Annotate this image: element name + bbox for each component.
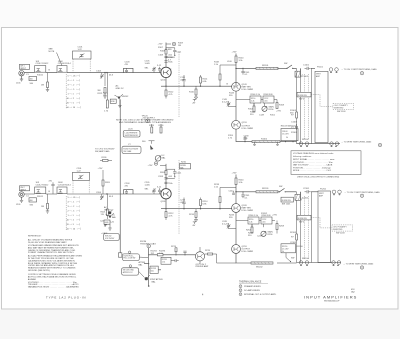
- svg-text:AND TERMINATED GUARD-RING TYPE: AND TERMINATED GUARD-RING TYPE ASSEMBLIE…: [119, 121, 171, 124]
- node CH2 plus output: [235, 191, 236, 192]
- svg-text:GND DC: GND DC: [116, 88, 125, 90]
- svg-text:GND: GND: [111, 101, 116, 103]
- label box SW1290 rounded: [122, 265, 145, 278]
- svg-text:R205: R205: [105, 182, 111, 184]
- coupling switch SW202 AC-GND-DC: [104, 206, 114, 230]
- svg-text:C2012 R2012: C2012 R2012: [36, 185, 50, 187]
- wire switch link vertical: [119, 100, 121, 190]
- svg-text:MODE . . . . . . . . . . . . .: MODE . . . . . . . . . . . . . . . . . .…: [293, 170, 332, 172]
- svg-text:10 ─○ 2 ○─┤: 10 ─○ 2 ○─┤: [67, 218, 81, 221]
- svg-text:C149: C149: [259, 115, 265, 117]
- potentiometer R156 GAIN: [262, 106, 274, 112]
- wire CH2 cluster links: [236, 221, 275, 228]
- label to vert switching bottom: [341, 141, 382, 147]
- svg-text:INVERTED: INVERTED: [334, 108, 344, 110]
- capacitor C2101: [303, 188, 311, 194]
- transistor Q201 FET input: [161, 189, 172, 203]
- resistor R136: [100, 157, 112, 161]
- switch S101 VOLTS/DIV contact table: [67, 74, 81, 109]
- wire CH1 minus output row: [236, 129, 297, 141]
- resistor R140: [235, 56, 244, 86]
- wire dashed to CH2 invert label: [311, 218, 332, 228]
- resistor R276: [205, 250, 217, 255]
- node chain junctions: [148, 254, 150, 287]
- svg-text:AGRAM:: AGRAM:: [28, 278, 37, 281]
- inductor L120 decoupling label box: [123, 129, 140, 138]
- svg-text:FULL CCW SW: FULL CCW SW: [124, 258, 136, 260]
- svg-text:SW 1201: SW 1201: [282, 204, 291, 206]
- svg-text:W1101: W1101: [262, 65, 269, 67]
- svg-text:VARIABLE/VOLTS/DIV . . . . . .: VARIABLE/VOLTS/DIV . . . . . . . . . . .…: [28, 286, 79, 289]
- trimmer capacitor C201 box: [73, 168, 90, 180]
- svg-text:TYPE 1A2 PLUG-IN: TYPE 1A2 PLUG-IN: [46, 296, 86, 300]
- power +75V CH2 FET: [148, 165, 167, 167]
- note text: [116, 119, 174, 125]
- resistor R214: [200, 198, 209, 210]
- resistor R116: [189, 86, 197, 95]
- svg-text:4.5-25: 4.5-25: [222, 101, 229, 103]
- potentiometer R134 DC BAL: [142, 141, 166, 161]
- svg-text:R258: R258: [279, 226, 285, 228]
- resistor R205: [102, 180, 111, 186]
- svg-text:R246 1.5k: R246 1.5k: [249, 215, 259, 217]
- capacitor bridge C103 over bus: [124, 62, 134, 73]
- svg-text:INPUT: INPUT: [20, 189, 27, 191]
- svg-text:W1201: W1201: [262, 188, 269, 190]
- transistor Q153 output follower: [232, 120, 254, 129]
- connector P1201 pins top CH2: [320, 189, 341, 196]
- box R1103 output dc level CH1: [281, 125, 298, 142]
- switch SW1101: [284, 63, 293, 69]
- svg-text:5k: 5k: [286, 137, 288, 139]
- svg-text:1M: 1M: [41, 85, 44, 87]
- capacitor box C252: [261, 217, 272, 224]
- coupling block input: [29, 76, 37, 80]
- svg-text:R108: R108: [160, 51, 166, 53]
- svg-text:VAR VOLTS/DIV . . . . . . . .: VAR VOLTS/DIV . . . . . . . . . . . . . …: [293, 164, 333, 167]
- svg-text:R154: R154: [248, 109, 254, 111]
- svg-text:R124: R124: [149, 125, 155, 127]
- svg-text:R256: R256: [268, 234, 274, 236]
- wire CH1 input bus: [24, 72, 161, 74]
- svg-text:C2102: C2102: [302, 198, 309, 200]
- svg-text:1: 1: [240, 286, 241, 288]
- resistor R121: [98, 72, 107, 98]
- svg-text:INPUT: INPUT: [20, 68, 27, 70]
- svg-text:C1102: C1102: [302, 76, 309, 78]
- svg-text:R146 1.5k: R146 1.5k: [251, 94, 261, 96]
- diode CR216: [192, 218, 198, 228]
- svg-text:+75V: +75V: [98, 168, 104, 170]
- connector J1 CH1 INPUT label: [20, 64, 30, 70]
- label box CH1 polarity dashed: [333, 103, 354, 113]
- capacitor bridge C203 over bus: [124, 183, 134, 194]
- svg-text:2.4k: 2.4k: [249, 222, 252, 224]
- wire Q201 drain up: [165, 164, 167, 189]
- variable capacitor C245: [222, 221, 236, 229]
- shield box connector hatched CH2: [295, 192, 302, 201]
- svg-text:R274: R274: [171, 246, 177, 248]
- svg-text:C1014 R1014: C1014 R1014: [58, 63, 72, 65]
- coupling block input 2: [29, 198, 37, 202]
- label group second stage CH2: [229, 215, 271, 238]
- svg-text:4.5-25: 4.5-25: [222, 223, 229, 225]
- svg-text:FOLLOWER: FOLLOWER: [242, 128, 254, 130]
- svg-text:Q201: Q201: [161, 201, 167, 203]
- label group CH1 column: [290, 76, 309, 141]
- trimmer capacitor C205: [145, 182, 156, 194]
- svg-text:4 ─○ .1 ○─┤: 4 ─○ .1 ○─┤: [68, 200, 81, 203]
- label atten bal: [139, 261, 146, 266]
- title block designators: [351, 289, 356, 294]
- svg-text:Q101: Q101: [161, 80, 167, 82]
- svg-text:+75V: +75V: [272, 215, 278, 217]
- svg-text:R158: R158: [279, 105, 285, 107]
- svg-text:C211: C211: [177, 173, 183, 175]
- capacitor C141: [241, 68, 250, 76]
- wire dashed links attenuator to C201: [73, 180, 89, 194]
- svg-text:2.4k: 2.4k: [251, 101, 254, 103]
- svg-text:R1011: R1011: [37, 75, 44, 77]
- svg-text:→ TO CH 2 VERT SWITCHING, DIAG: → TO CH 2 VERT SWITCHING, DIAG: [344, 191, 380, 194]
- svg-text:R210: R210: [181, 161, 187, 163]
- svg-text:R151: R151: [270, 115, 276, 117]
- svg-text:C2103: C2103: [290, 242, 297, 244]
- capacitor C213: [180, 198, 186, 210]
- box R1293: [150, 266, 158, 273]
- svg-text:+75V: +75V: [232, 173, 238, 175]
- wire dashed to invert label: [311, 95, 333, 107]
- svg-text:1 ─○ 1 ○─┤: 1 ─○ 1 ○─┤: [68, 92, 81, 95]
- wire CH1 output bottom row: [297, 143, 341, 145]
- connector J201 CH2 INPUT label: [20, 186, 30, 192]
- resistor R2104: [291, 234, 298, 240]
- connector pins bottom row CH2: [299, 261, 341, 266]
- capacitor C274: [183, 251, 186, 255]
- svg-text:500: 500: [151, 270, 154, 272]
- wire CH2 output bottom row: [297, 262, 342, 264]
- box R1201 gain: [281, 197, 294, 205]
- box R1290 output dc level: [281, 244, 303, 253]
- thermal balance legend: [239, 281, 277, 297]
- wire into delay box: [311, 67, 315, 69]
- svg-text:C104: C104: [96, 71, 102, 73]
- power +75V CH2 input: [98, 168, 104, 194]
- svg-text:10 ─○ 2 ○─┤: 10 ─○ 2 ○─┤: [67, 97, 81, 100]
- svg-text:R2103: R2103: [290, 232, 297, 234]
- wire interstage: [235, 91, 237, 120]
- node source junction: [165, 86, 166, 87]
- diode CR116: [192, 95, 198, 105]
- potentiometer step atten bal: [145, 275, 163, 283]
- resistor R126: [159, 124, 165, 133]
- vertical lines CH2 output pair column: [297, 192, 312, 263]
- transistor Q243 emitter follower: [232, 204, 254, 213]
- inductor W1201 delay segment: [256, 188, 278, 215]
- connector J201: [16, 192, 24, 206]
- svg-text:+75V: +75V: [276, 111, 282, 113]
- svg-text:SIG: SIG: [30, 83, 34, 85]
- svg-text:5k: 5k: [282, 251, 284, 253]
- trimmer capacitor C106: [157, 65, 162, 73]
- svg-text:SW 2: SW 2: [299, 99, 305, 101]
- label box drive bal: [180, 161, 191, 169]
- svg-text:INPUT AMPLIFIERS: INPUT AMPLIFIERS: [304, 294, 357, 299]
- power +75V second stage: [232, 52, 238, 57]
- node bottom bus join: [217, 254, 236, 263]
- label SEE NOTE callout: [49, 49, 65, 71]
- svg-text:.001: .001: [262, 222, 266, 224]
- trimmer capacitor C206: [157, 186, 162, 194]
- wire into CH2 delay box: [311, 191, 318, 193]
- svg-text:400: 400: [30, 200, 33, 202]
- svg-text:FOLLOWER: FOLLOWER: [242, 89, 254, 91]
- svg-text:VOLTS/DIV . . . . . . . . . .: VOLTS/DIV . . . . . . . . . . . . . . . …: [293, 162, 333, 164]
- svg-text:3: 3: [240, 294, 241, 296]
- wire Q101 source down to bus: [161, 78, 232, 87]
- svg-text:SW: SW: [291, 258, 294, 260]
- svg-text:Q153: Q153: [242, 122, 248, 124]
- svg-text:C249: C249: [257, 236, 263, 238]
- svg-text:W1104: W1104: [302, 139, 309, 141]
- wire CH2 minus output row: [236, 253, 297, 263]
- svg-text:SW 1103: SW 1103: [337, 111, 346, 113]
- svg-text:DC LEV: DC LEV: [282, 134, 289, 136]
- power +75V: [158, 44, 172, 46]
- box R1291: [161, 257, 179, 264]
- svg-text:FOLLOWER: FOLLOWER: [242, 210, 254, 212]
- label group R110: [158, 47, 174, 71]
- potentiometer R256 CH2 GAIN: [261, 231, 273, 237]
- attenuator block A102: [57, 61, 71, 72]
- terminator box: [118, 253, 122, 257]
- connector P1101 pins top: [317, 66, 338, 73]
- svg-text:NORM INV: NORM INV: [298, 218, 308, 220]
- capacitor C109: [164, 61, 173, 64]
- svg-text:SW: SW: [279, 186, 282, 188]
- transistor Q143 emitter follower: [227, 82, 254, 91]
- resistor R108: [160, 48, 167, 55]
- svg-text:INTERNAL OUT & OUTPUT AMPL: INTERNAL OUT & OUTPUT AMPL: [244, 293, 277, 296]
- svg-text:4 ─○ .1 ○─┤: 4 ─○ .1 ○─┤: [68, 79, 81, 82]
- svg-text:INPUT SIGNAL . . . . . . . . .: INPUT SIGNAL . . . . . . . . . . . . . .…: [293, 158, 335, 161]
- svg-text:R1105: R1105: [291, 132, 298, 134]
- svg-text:THERMAL BALANCE: THERMAL BALANCE: [239, 281, 262, 284]
- capacitor C111 parallel branch: [166, 48, 182, 57]
- svg-text:1M: 1M: [41, 206, 44, 208]
- inductor T1101 delay segment: [256, 65, 278, 70]
- svg-text:R107: R107: [158, 47, 164, 49]
- resistor R154: [248, 103, 255, 112]
- wire Q101 drain up: [165, 43, 167, 68]
- svg-text:VOLTAGE READINGS were obtained: VOLTAGE READINGS were obtained under: [293, 152, 334, 155]
- svg-text:SW102: SW102: [122, 96, 130, 98]
- connector pins bottom row: [299, 142, 339, 147]
- svg-text:→ TO VERT SWITCHING, DIAG: → TO VERT SWITCHING, DIAG: [341, 141, 372, 144]
- capacitor C241: [229, 191, 251, 200]
- svg-text:20 ─○ 5 ○─┤: 20 ─○ 5 ○─┤: [67, 101, 81, 104]
- ground ticks below CH1 bottom row: [253, 142, 279, 146]
- transistor Q273 driver: [195, 247, 209, 268]
- wire long vertical into terminator: [119, 189, 121, 253]
- svg-text:50 ─○ 10 ○─┤: 50 ─○ 10 ○─┤: [67, 106, 81, 109]
- resistor network box R152: [263, 96, 274, 103]
- svg-text:PONENT CHARACTERISTICS. SEE SE: PONENT CHARACTERISTICS. SEE SECTION 5.: [28, 251, 75, 254]
- svg-text:C2101: C2101: [303, 188, 310, 190]
- svg-text:+75V: +75V: [232, 52, 238, 54]
- resistor R240: [235, 178, 244, 204]
- svg-text:SUPPRESSOR: SUPPRESSOR: [125, 135, 139, 137]
- wire CH2 interstage: [235, 212, 237, 244]
- svg-text:SW CAM: SW CAM: [123, 150, 131, 153]
- svg-text:R156: R156: [269, 109, 275, 111]
- wire cluster links: [236, 100, 277, 107]
- wire dashed links attenuator to C101: [73, 59, 90, 73]
- power +75V CH2 second stage: [232, 173, 238, 179]
- svg-text:C1012 R1012: C1012 R1012: [36, 63, 50, 65]
- svg-text:C208: C208: [158, 176, 164, 178]
- svg-text:SW 1203: SW 1203: [336, 233, 345, 235]
- label to vert switching top: [341, 68, 377, 75]
- svg-text:3 ─○ .2 ○─┤: 3 ─○ .2 ○─┤: [68, 205, 81, 208]
- test point TP101: [172, 42, 184, 47]
- attenuator block A202: [57, 182, 71, 193]
- svg-text:50 ─○ 10 ○─┤: 50 ─○ 10 ○─┤: [67, 227, 81, 230]
- svg-text:1-005: 1-005: [145, 63, 151, 65]
- resistor network box R150: [250, 96, 261, 103]
- switch S201 VOLTS/DIV contact table: [67, 196, 81, 231]
- delay line assembly box: [315, 71, 328, 142]
- wire CH2 plus output row: [236, 191, 297, 193]
- svg-text:DC AMPLIFIERS: DC AMPLIFIERS: [244, 289, 260, 292]
- svg-text:SN B060000-UP: SN B060000-UP: [324, 300, 340, 302]
- label box CH2 volts-div cam: [104, 234, 120, 241]
- svg-text:→ TO VERT SWITCHING, DIAG: → TO VERT SWITCHING, DIAG: [343, 262, 374, 265]
- svg-text:NORM INV: NORM INV: [282, 200, 292, 202]
- svg-text:R121: R121: [98, 93, 104, 95]
- label group input CH2: [26, 191, 51, 207]
- node junction at x107: [106, 72, 107, 73]
- attenuator block A101: [35, 61, 50, 72]
- shield box connector hatched: [295, 68, 302, 77]
- resistor R274: [171, 246, 177, 256]
- test point TP120: [142, 115, 156, 122]
- coupling switch SW102 AC-GND-DC: [110, 85, 129, 108]
- resistor R112: [165, 86, 174, 98]
- svg-text:400: 400: [30, 79, 33, 81]
- svg-text:POSITION . . . . . . . . . . .: POSITION . . . . . . . . . . . . . . . .…: [293, 166, 331, 169]
- resistor R124: [149, 124, 155, 133]
- capacitor C1101: [303, 65, 311, 71]
- capacitor C1106: [291, 124, 298, 130]
- trimmer capacitor C105: [145, 61, 156, 73]
- svg-text:SW 2: SW 2: [299, 222, 305, 224]
- wire attenuator balance chain: [144, 248, 195, 286]
- resistor R216: [189, 209, 197, 218]
- resistor R203: [41, 194, 49, 209]
- capacitor C211 parallel branch: [166, 169, 182, 178]
- svg-text:REFERENCE:: REFERENCE:: [28, 236, 42, 238]
- wire arrow to CH2 volts/div: [95, 149, 115, 153]
- svg-text:→ TO CH 1 VERT SWITCHING, DIAG: → TO CH 1 VERT SWITCHING, DIAG: [341, 68, 377, 71]
- label box CH2 polarity dashed: [332, 225, 353, 235]
- switch section bracket S101: [65, 74, 67, 109]
- switch SW1103 normal-invert: [297, 92, 311, 100]
- resistor R114: [200, 75, 209, 87]
- svg-text:9M: 9M: [98, 90, 101, 92]
- svg-text:R126: R126: [159, 125, 165, 127]
- resistor R258: [272, 215, 285, 234]
- svg-text:R248 909: R248 909: [262, 215, 272, 217]
- node junction CH2 source: [165, 208, 166, 209]
- svg-text:R136: R136: [102, 157, 108, 159]
- svg-text:SIG: SIG: [30, 204, 34, 206]
- transistor Q101 FET input: [161, 67, 172, 81]
- svg-text:R1102: R1102: [261, 138, 268, 140]
- node CH1 plus output: [235, 68, 236, 69]
- resistor R204: [100, 194, 117, 227]
- resistor R118: [214, 62, 236, 87]
- svg-text:2 ─○ .5 ○─┤: 2 ─○ .5 ○─┤: [68, 209, 81, 212]
- svg-text:3 ─○ .2 ○─┤: 3 ─○ .2 ○─┤: [68, 83, 81, 86]
- attenuator block A201: [35, 182, 50, 193]
- shield dashed boundary CH2: [178, 160, 180, 234]
- svg-text:20 ─○ 5 ○─┤: 20 ─○ 5 ○─┤: [67, 223, 81, 226]
- svg-text:R254: R254: [246, 230, 252, 232]
- svg-text:2: 2: [240, 290, 241, 292]
- svg-text:NOTE: NOTE: [49, 51, 55, 53]
- svg-text:PREAMPLIFIERS: PREAMPLIFIERS: [244, 285, 261, 288]
- svg-text:R116: R116: [189, 92, 195, 94]
- label box R1293 cam rounded: [122, 251, 148, 260]
- svg-text:BAL: BAL: [180, 166, 183, 169]
- resistor R103: [41, 73, 49, 88]
- wire Q201 source to bus: [161, 199, 232, 209]
- svg-text:GND DC: GND DC: [104, 210, 113, 212]
- svg-text:R2011: R2011: [37, 196, 44, 198]
- svg-text:VOLTS/DIV: VOLTS/DIV: [105, 238, 115, 240]
- label group CH2 column: [290, 198, 309, 261]
- shield dashed boundary CH1: [178, 52, 180, 118]
- svg-text:C1103: C1103: [291, 122, 298, 124]
- voltage readings notes box: [291, 151, 361, 179]
- wire CH1 plus output row: [236, 67, 297, 69]
- svg-text:DRIVER AMP: DRIVER AMP: [196, 265, 209, 268]
- test point TP201: [154, 162, 158, 166]
- svg-text:1 ─○ 1 ○─┤: 1 ─○ 1 ○─┤: [68, 214, 81, 217]
- transistor Q253 output follower: [232, 245, 254, 254]
- svg-text:C108: C108: [158, 55, 164, 57]
- svg-text:SW, AMP DIAG: SW, AMP DIAG: [95, 150, 110, 153]
- svg-text:C242: C242: [229, 191, 235, 193]
- svg-text:C2014 R2014: C2014 R2014: [58, 185, 72, 187]
- node junction CH2 x107: [106, 193, 107, 194]
- ground: [46, 88, 49, 92]
- svg-text:FOLLOWER: FOLLOWER: [242, 251, 254, 253]
- svg-text:1M: 1M: [178, 45, 181, 47]
- switch SW1290: [286, 253, 294, 262]
- resistor R158: [276, 100, 285, 109]
- capacitor C160: [243, 136, 249, 143]
- delay line assembly box CH2: [318, 191, 331, 263]
- svg-text:P1201: P1201: [320, 189, 327, 191]
- resistor R218: [214, 184, 236, 209]
- label group second stage CH1: [229, 93, 282, 117]
- resistor R212: [165, 209, 174, 220]
- resistor R208: [160, 170, 167, 175]
- inductor W1102 delay segment: [252, 138, 280, 142]
- capacitor C202: [49, 181, 55, 195]
